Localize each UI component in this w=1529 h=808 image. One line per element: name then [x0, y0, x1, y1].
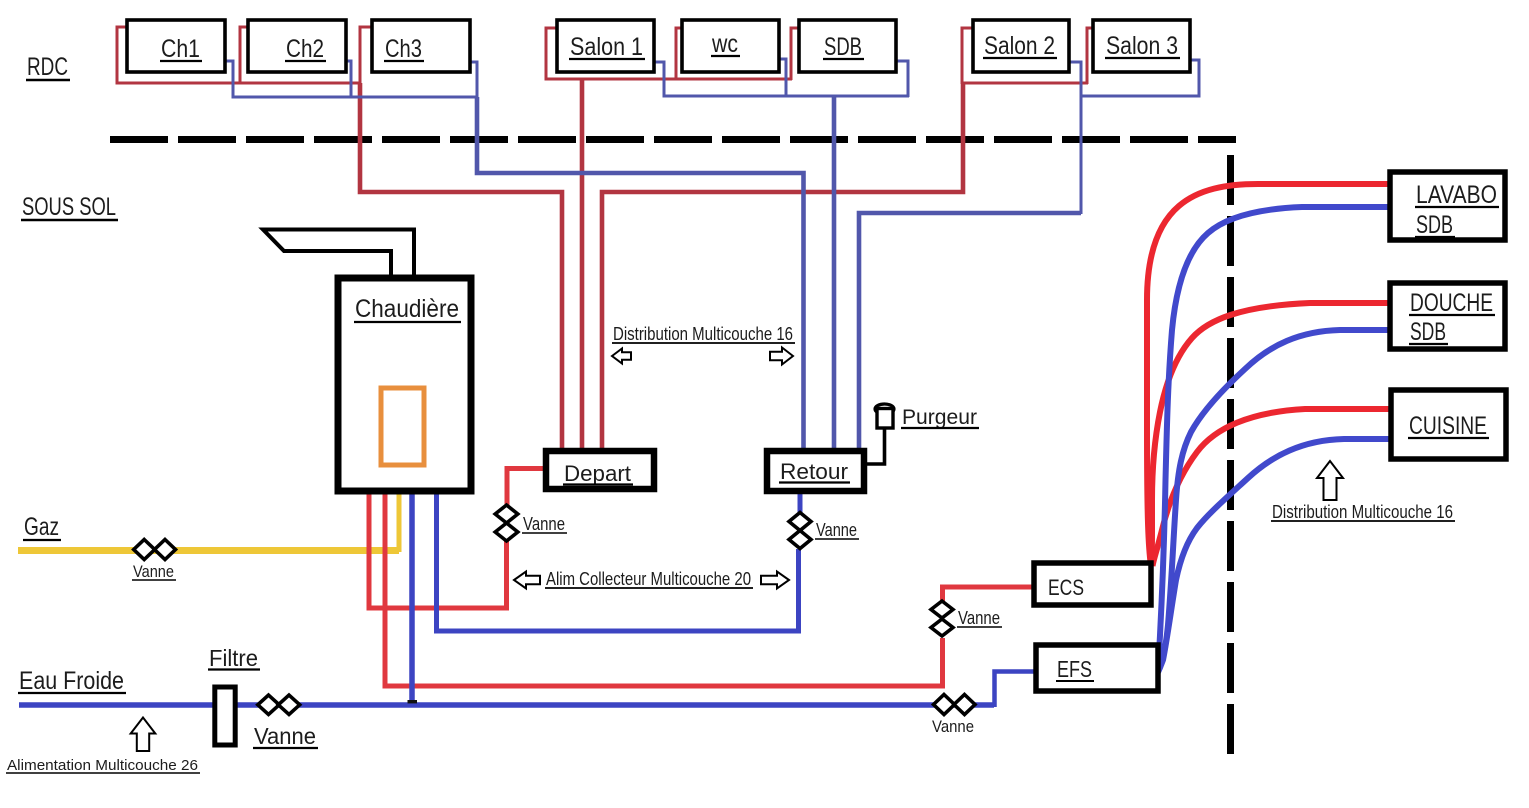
- svg-text:Gaz: Gaz: [24, 513, 59, 541]
- svg-text:Distribution Multicouche 16: Distribution Multicouche 16: [1272, 502, 1453, 522]
- svg-text:CUISINE: CUISINE: [1409, 412, 1487, 440]
- svg-text:SOUS SOL: SOUS SOL: [22, 193, 116, 221]
- svg-text:RDC: RDC: [27, 53, 68, 81]
- svg-text:Alim Collecteur Multicouche 20: Alim Collecteur Multicouche 20: [546, 569, 751, 589]
- svg-text:SDB: SDB: [824, 33, 862, 61]
- svg-text:Vanne: Vanne: [133, 562, 174, 581]
- svg-text:Salon 1: Salon 1: [570, 33, 643, 61]
- svg-text:Ch3: Ch3: [385, 35, 422, 63]
- svg-text:Salon 3: Salon 3: [1106, 32, 1178, 60]
- svg-text:Salon 2: Salon 2: [984, 32, 1055, 60]
- svg-text:SDB: SDB: [1410, 318, 1446, 346]
- svg-text:Vanne: Vanne: [958, 608, 1000, 628]
- svg-text:Depart: Depart: [564, 461, 631, 486]
- svg-text:Vanne: Vanne: [932, 717, 974, 736]
- svg-text:Vanne: Vanne: [816, 520, 857, 540]
- svg-text:DOUCHE: DOUCHE: [1410, 289, 1493, 317]
- svg-text:Purgeur: Purgeur: [902, 406, 977, 429]
- svg-text:ECS: ECS: [1048, 575, 1084, 600]
- svg-text:Vanne: Vanne: [523, 514, 565, 534]
- svg-text:Ch1: Ch1: [161, 35, 200, 63]
- svg-text:Chaudière: Chaudière: [355, 295, 459, 323]
- svg-text:LAVABO: LAVABO: [1416, 181, 1497, 209]
- svg-text:Filtre: Filtre: [209, 645, 258, 671]
- svg-text:SDB: SDB: [1416, 211, 1453, 239]
- svg-text:Vanne: Vanne: [254, 723, 316, 749]
- svg-text:Distribution Multicouche 16: Distribution Multicouche 16: [613, 324, 793, 344]
- svg-text:EFS: EFS: [1057, 656, 1092, 682]
- svg-text:Ch2: Ch2: [286, 35, 324, 63]
- svg-text:Alimentation Multicouche 26: Alimentation Multicouche 26: [7, 758, 198, 774]
- svg-text:Retour: Retour: [780, 459, 848, 484]
- svg-text:wc: wc: [711, 30, 738, 58]
- svg-text:Eau Froide: Eau Froide: [19, 667, 124, 695]
